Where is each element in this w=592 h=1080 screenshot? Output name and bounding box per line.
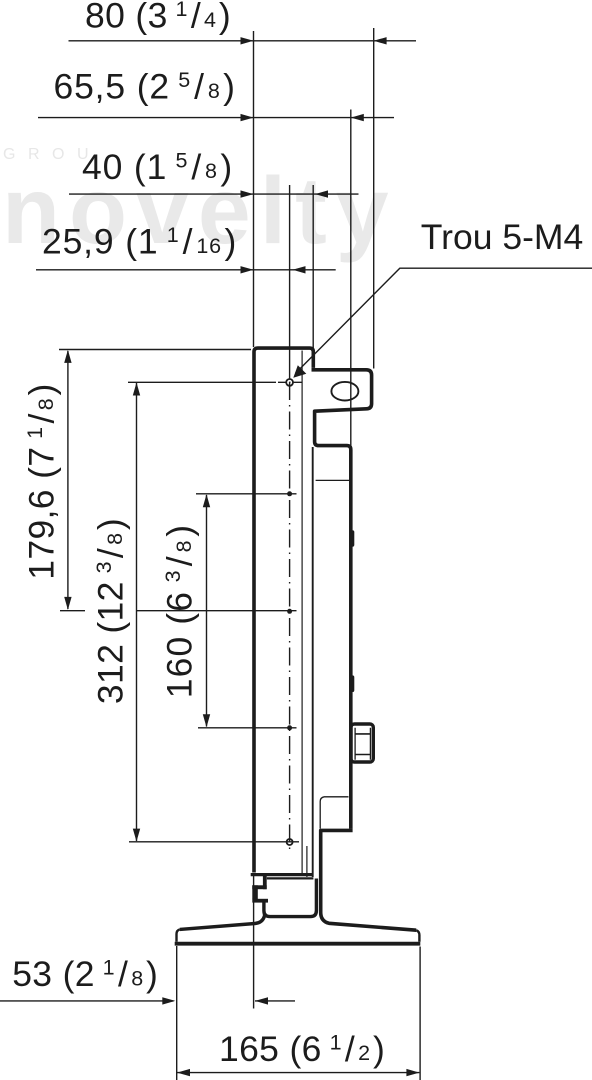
svg-text:160 (6 3/8): 160 (6 3/8) bbox=[160, 524, 200, 698]
connector inner bbox=[355, 728, 370, 760]
bottom right step bbox=[321, 830, 417, 930]
ext line y610.7 hole3 bbox=[60, 610, 297, 612]
leader Trou 5-M4 bbox=[296, 268, 592, 373]
extension line 40 x313.2 bbox=[312, 185, 314, 348]
svg-text:40 (1 5/8): 40 (1 5/8) bbox=[82, 147, 233, 187]
hole1 circle bbox=[286, 379, 293, 386]
hole2 dot bbox=[287, 491, 292, 496]
seam line y480.4 bbox=[316, 479, 350, 481]
base top-left line bbox=[180, 913, 265, 929]
dim line 25,9 bbox=[36, 269, 336, 271]
ext line y727.8 hole4 bbox=[198, 727, 297, 729]
dim line 40 bbox=[69, 193, 359, 195]
dim line 179,6 vertical bbox=[67, 351, 69, 609]
dim line 165 bbox=[177, 1072, 419, 1074]
arrow 312 bottom bbox=[133, 829, 140, 842]
bump2 right edge bbox=[350, 675, 354, 692]
ellipse hole in bracket bbox=[331, 382, 358, 401]
base bottom edge bbox=[175, 942, 421, 946]
panel outline thick bbox=[175, 348, 421, 944]
svg-text:53 (2 1/8): 53 (2 1/8) bbox=[12, 954, 158, 994]
extension line hole x289.6 bbox=[289, 185, 291, 379]
arrow 165 left bbox=[177, 1069, 190, 1076]
arrow 179,6 top bbox=[64, 350, 71, 363]
svg-text:165 (6 1/2): 165 (6 1/2) bbox=[219, 1029, 385, 1069]
arrow 65,5 right bbox=[351, 114, 364, 121]
hole5 circle bbox=[287, 839, 293, 845]
hole3 dot bbox=[287, 609, 292, 614]
svg-text:Trou 5-M4: Trou 5-M4 bbox=[421, 217, 583, 257]
ext line y493.8 hole2 bbox=[196, 493, 297, 495]
arrow 40 left bbox=[241, 190, 254, 197]
dim line 53 bbox=[0, 1000, 295, 1002]
bump1 right edge bbox=[350, 530, 354, 546]
svg-text:312 (12 3/8): 312 (12 3/8) bbox=[91, 518, 131, 704]
interior short line x306.9 bbox=[306, 846, 308, 877]
bezel bottom line2 bbox=[267, 877, 314, 879]
arrow 179,6 bottom bbox=[64, 597, 71, 610]
svg-text:65,5 (2 5/8): 65,5 (2 5/8) bbox=[54, 67, 236, 107]
arrow 53 right bbox=[255, 997, 268, 1004]
ext line y382.3 hole1 bbox=[128, 381, 276, 383]
ext line y841.8 hole5 bbox=[129, 841, 299, 843]
ext line x253.6 below panel bbox=[253, 876, 255, 1009]
clip left bar2 bbox=[252, 885, 257, 899]
arrowheads bbox=[64, 37, 419, 1076]
arrow 165 right bbox=[406, 1069, 419, 1076]
arrow 160 bottom bbox=[203, 714, 210, 727]
neck U shape bbox=[264, 879, 317, 917]
extension line left panel x253.5 bbox=[253, 31, 255, 347]
connector outer bbox=[351, 724, 373, 762]
clip bottom bar1 bbox=[252, 885, 266, 889]
bezel bottom line1 bbox=[251, 873, 314, 876]
dim line 65,5 bbox=[38, 117, 394, 119]
svg-text:179,6 (7 1/8): 179,6 (7 1/8) bbox=[22, 383, 62, 579]
base left tip bbox=[177, 929, 180, 941]
ext line y349.5 panel top bbox=[59, 349, 251, 351]
clip black bars bottom-left bbox=[252, 530, 354, 902]
ext line x420.1 base right bbox=[419, 947, 421, 1080]
clip right bar bbox=[263, 873, 267, 889]
arrow 80 right bbox=[374, 37, 387, 44]
arrow 25,9 right bbox=[293, 266, 306, 273]
base right tip bbox=[416, 930, 419, 942]
arrow 160 top bbox=[203, 494, 210, 507]
dim line 160 vertical bbox=[206, 495, 208, 727]
hole4 dot bbox=[287, 725, 292, 730]
arrow 65,5 left bbox=[241, 114, 254, 121]
thin feature line bottom right bbox=[320, 797, 348, 829]
ext line x176.7 base left bbox=[176, 946, 178, 1080]
interior line x312.7 bbox=[312, 447, 314, 877]
interior line x302.1 bbox=[301, 351, 303, 874]
centerline holes dash-dot bbox=[289, 382, 291, 853]
arrow 312 top bbox=[133, 383, 140, 396]
dim line 80 bbox=[69, 40, 417, 42]
extension line 80 x373.7 bbox=[373, 28, 375, 369]
clip bottom bar2 bbox=[252, 899, 268, 903]
arrow trou leader bbox=[293, 365, 306, 378]
dim line 312 vertical bbox=[136, 383, 138, 841]
panel main outline bbox=[254, 348, 313, 872]
arrow 80 left bbox=[241, 37, 254, 44]
bracket with ellipse bbox=[312, 370, 372, 829]
svg-text:80 (3 1/4): 80 (3 1/4) bbox=[85, 0, 231, 36]
arrow 40 right bbox=[315, 190, 328, 197]
arrow 25,9 left bbox=[241, 266, 254, 273]
arrow 53 left bbox=[162, 997, 175, 1004]
extension line 65,5 x350.8 bbox=[350, 110, 352, 447]
